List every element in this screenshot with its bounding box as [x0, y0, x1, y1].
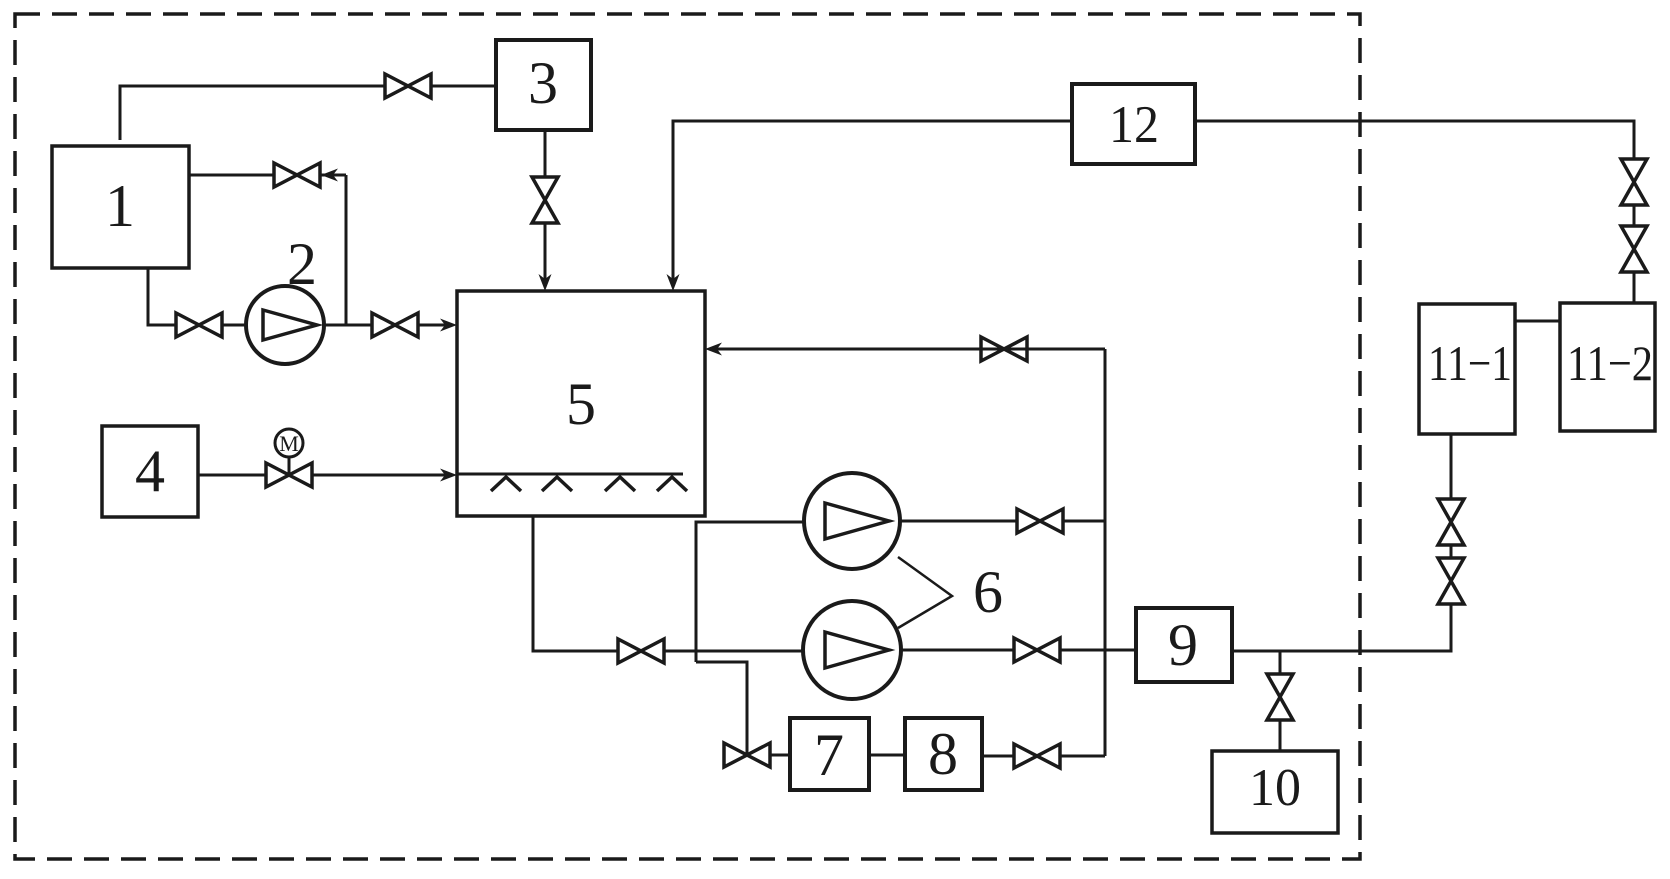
wire valve V13 to box7 [770, 754, 790, 757]
valve V1 on box3-box1 line [385, 74, 431, 98]
wire box7 to box8 [869, 754, 905, 757]
arrow into box5 top from box12 [667, 274, 680, 291]
box 1 [52, 146, 189, 268]
svg-text:9: 9 [1168, 612, 1198, 678]
wire box12 right to elbow above 11-2 [1195, 121, 1634, 159]
motor valve V11 circle M [275, 429, 303, 475]
wire box3 to valve V1 [431, 85, 496, 88]
wire jog down to valve V13 before box7 [696, 662, 747, 755]
svg-text:1: 1 [105, 173, 135, 239]
box 12 [1072, 84, 1195, 164]
motor valve V11 body [266, 463, 312, 487]
pump 6a [804, 473, 900, 569]
wire box11-1 to box11-2 connector [1515, 320, 1560, 323]
wire valve V15 to trunk [1063, 520, 1105, 523]
arrow into valve V2 [321, 169, 338, 182]
box 5 [457, 291, 705, 516]
wire pump2 to valve V4 [324, 324, 372, 327]
wire box1 bottom down and to valve V3 [148, 268, 176, 325]
wire riser from pump2 discharge up to valve V2 line [345, 175, 348, 325]
arrow into box5 right [705, 343, 722, 356]
wire valve V3 to pump2 [222, 324, 246, 327]
box 9 [1136, 608, 1232, 682]
wire branch down to valve V10 above box10 [1279, 651, 1282, 674]
wire valve V16 to box9 left [1060, 649, 1136, 652]
valve V18 top branch [981, 337, 1027, 361]
wire box1 right to valve V2 [189, 174, 274, 177]
box 11-2 [1560, 303, 1655, 431]
svg-text:8: 8 [928, 721, 958, 787]
valve V4 right of pump2 [372, 313, 418, 337]
valve V3 left of pump2 [176, 313, 222, 337]
wire pump6b discharge to valve V16 [901, 649, 1014, 652]
wire valve V9 down and left to box9 [1232, 604, 1451, 651]
valve V2 right of box1 [274, 163, 320, 187]
valve V14 right of box8 [1014, 744, 1060, 768]
svg-text:6: 6 [973, 559, 1003, 625]
wire valve V5 to box5 top (arrow) [544, 223, 547, 285]
pump 2 [246, 231, 324, 364]
dashed system boundary [15, 14, 1360, 859]
wire between valves V6 V7 [1633, 205, 1636, 226]
label 6 with pointer lines [898, 557, 1003, 628]
wire suction riser to pump 6a [696, 522, 805, 662]
wire box12 left to elbow down into box5 top [673, 121, 1072, 285]
svg-text:3: 3 [528, 50, 558, 116]
svg-text:4: 4 [135, 438, 165, 504]
arrow into box5 left from pump2 [440, 319, 457, 332]
svg-text:5: 5 [566, 371, 596, 437]
valve V6 above box11-2 upper (vertical) [1621, 159, 1647, 205]
svg-text:11−1: 11−1 [1428, 335, 1512, 391]
valve V10 above box10 (vertical) [1267, 674, 1293, 720]
valve V7 above box11-2 lower (vertical) [1621, 226, 1647, 272]
wire valve V10 to box10 top [1279, 720, 1282, 751]
wire valve V14 to trunk [1060, 755, 1105, 758]
svg-text:10: 10 [1249, 759, 1301, 817]
svg-text:7: 7 [814, 722, 844, 788]
box 8 [905, 718, 982, 790]
valve V17 on suction line [618, 639, 664, 663]
valve V9 below box11-1 lower (vertical) [1438, 558, 1464, 604]
wire box8 to valve V14 [982, 755, 1014, 758]
wire box3 bottom to valve V5 [544, 130, 547, 177]
valve V16 pump6b discharge [1014, 638, 1060, 662]
valve V15 pump6a discharge [1017, 509, 1063, 533]
arrow into box5 left from box4 [440, 469, 457, 482]
pump 6b [803, 601, 901, 699]
box 11-1 [1419, 304, 1515, 434]
wire between valves V8 V9 [1450, 545, 1453, 558]
valve V13 before box7 [724, 743, 770, 767]
svg-text:12: 12 [1109, 96, 1159, 154]
wire valve V4 to box5 left (arrow) [418, 324, 445, 327]
box 7 [790, 718, 869, 790]
wire valve V12 to pump 6b suction [664, 650, 804, 653]
sparge nozzles inside box5 [491, 477, 687, 491]
box 4 [102, 426, 198, 517]
wire motor valve V11 to box5 left (arrow) [312, 474, 445, 477]
wire trunk top branch to box5 right (arrow) [710, 348, 1105, 351]
wire valve V1 to elbow to box1 top [120, 86, 385, 140]
svg-text:2: 2 [287, 231, 317, 297]
valve V5 below box3 (vertical) [532, 177, 558, 223]
wire valve V7 to box11-2 top [1633, 272, 1636, 303]
arrow into box5 top from box3 [539, 274, 552, 291]
wire sparge header inside box5 [457, 473, 683, 476]
svg-text:M: M [279, 431, 299, 456]
valve V8 below box11-1 upper (vertical) [1438, 499, 1464, 545]
wire pump6a discharge to valve V15 [900, 520, 1017, 523]
wire arrow line into valve V2 from riser [320, 174, 346, 177]
wire box5 bottom down to suction line [533, 516, 618, 651]
box 10 [1212, 751, 1338, 833]
box 3 [496, 40, 591, 130]
svg-text:11−2: 11−2 [1567, 335, 1653, 391]
wire trunk riser [1104, 349, 1107, 756]
wire box11-1 bottom to valve V8 [1450, 434, 1453, 499]
wire box4 to motor valve V11 [198, 474, 266, 477]
